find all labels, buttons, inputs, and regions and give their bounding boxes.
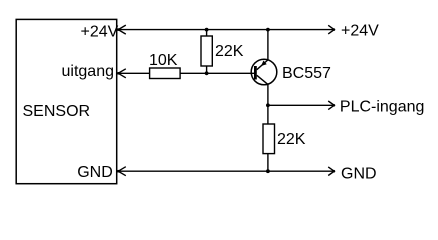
svg-text:+24V: +24V	[341, 23, 379, 40]
svg-text:BC557: BC557	[282, 65, 331, 82]
svg-text:GND: GND	[77, 164, 113, 181]
svg-text:uitgang: uitgang	[62, 63, 115, 80]
svg-text:SENSOR: SENSOR	[23, 103, 91, 120]
svg-text:GND: GND	[341, 165, 377, 182]
svg-text:10K: 10K	[149, 52, 178, 69]
svg-text:PLC-ingang: PLC-ingang	[340, 98, 425, 115]
svg-text:22K: 22K	[215, 43, 244, 60]
svg-text:+24V: +24V	[80, 24, 118, 41]
svg-text:22K: 22K	[277, 131, 306, 148]
